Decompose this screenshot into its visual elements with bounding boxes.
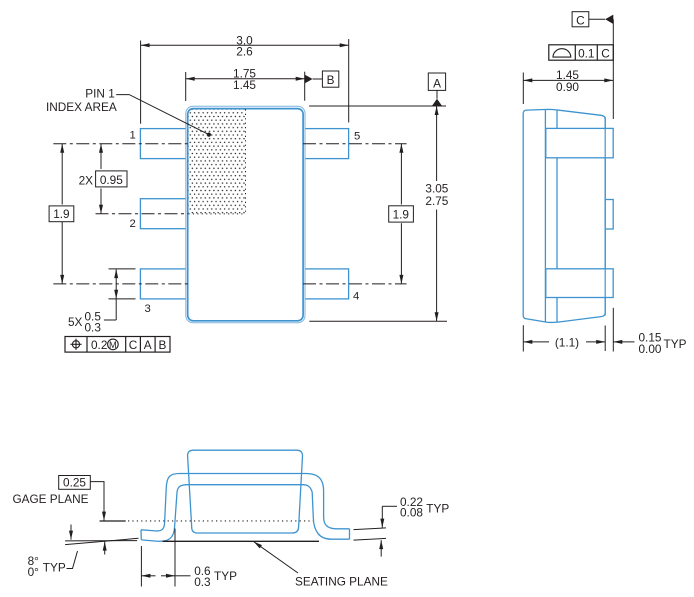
centerline pin row 1 right	[303, 143, 407, 145]
svg-text:0.3: 0.3	[85, 320, 102, 334]
svg-text:C: C	[601, 46, 610, 60]
pin 4 lead	[305, 269, 349, 299]
seating plane label	[254, 542, 389, 589]
svg-text:TYP: TYP	[426, 502, 449, 516]
svg-text:0.08: 0.08	[400, 506, 423, 520]
side bottom lead	[546, 269, 613, 298]
svg-text:2X: 2X	[79, 173, 94, 187]
datum A symbol	[428, 73, 445, 106]
centerline pin row 3 right	[303, 283, 407, 285]
svg-text:GAGE PLANE: GAGE PLANE	[12, 492, 88, 506]
svg-text:INDEX AREA: INDEX AREA	[46, 100, 117, 114]
body outline inner	[188, 109, 303, 321]
centerline pin row 1 left	[53, 143, 188, 145]
svg-text:4: 4	[353, 291, 359, 303]
datum B symbol	[305, 71, 339, 87]
svg-text:1: 1	[130, 129, 136, 141]
svg-text:0.00: 0.00	[639, 342, 662, 356]
svg-text:SEATING PLANE: SEATING PLANE	[295, 574, 388, 588]
svg-text:(1.1): (1.1)	[555, 335, 579, 349]
dimension 1.75/1.45	[186, 66, 305, 101]
svg-text:5: 5	[354, 130, 360, 142]
dimension 0.6/0.3	[141, 529, 237, 589]
pin 1 index area label	[46, 87, 211, 137]
svg-text:A: A	[144, 338, 152, 352]
dimension 2X 0.95	[79, 144, 127, 214]
lead lower surface path	[141, 485, 349, 542]
seating plane line	[163, 540, 320, 542]
svg-text:0.2: 0.2	[91, 338, 107, 352]
feature control frame position	[65, 337, 170, 353]
side middle lead tab	[605, 200, 613, 230]
svg-text:1.9: 1.9	[393, 207, 409, 221]
datum C symbol	[572, 12, 613, 119]
svg-text:A: A	[433, 76, 441, 90]
gage plane line	[100, 520, 126, 522]
pin 5 lead	[305, 129, 349, 159]
pin 1 index area stipple	[189, 109, 246, 213]
lead upper surface path	[141, 474, 350, 531]
dimension 3.05/2.75	[309, 106, 449, 321]
svg-text:2.6: 2.6	[236, 45, 253, 59]
svg-text:2.75: 2.75	[425, 194, 448, 208]
svg-text:2: 2	[130, 218, 136, 230]
svg-text:PIN 1: PIN 1	[85, 87, 115, 101]
svg-text:B: B	[158, 338, 166, 352]
centerline pin row 2	[96, 213, 189, 215]
pin 1 lead	[140, 129, 186, 159]
dimension (1.1)	[523, 325, 605, 351]
lead right tip edge	[349, 529, 351, 539]
side top lead	[546, 128, 613, 157]
angle 8/0 deg wedge	[28, 525, 139, 580]
dimension 1.45/0.90	[523, 68, 613, 104]
gage plane label	[12, 476, 104, 521]
svg-text:0.95: 0.95	[100, 173, 123, 187]
side body inner edge lines	[544, 110, 546, 323]
svg-text:0.90: 0.90	[556, 80, 579, 94]
side body outline	[523, 109, 605, 322]
centerline pin row 3 left	[53, 283, 188, 285]
svg-text:1.9: 1.9	[53, 207, 69, 221]
pin 2 lead	[140, 199, 186, 229]
dimension 5X 0.5/0.3	[68, 269, 136, 335]
svg-text:0.3: 0.3	[194, 575, 211, 589]
svg-text:3: 3	[145, 303, 151, 315]
svg-text:0.1: 0.1	[578, 46, 594, 60]
dimension 1.9 left	[49, 144, 74, 284]
dimension 0.22/0.08	[354, 495, 450, 557]
dimension 3.0/2.6	[141, 33, 349, 123]
dimension 1.9 right	[389, 144, 414, 284]
svg-text:TYP: TYP	[214, 569, 237, 583]
svg-text:1.45: 1.45	[233, 78, 256, 92]
svg-text:0.25: 0.25	[63, 476, 86, 490]
feature control frame profile	[549, 45, 614, 61]
svg-text:TYP: TYP	[664, 337, 687, 351]
svg-text:B: B	[327, 73, 335, 87]
svg-text:5X: 5X	[68, 315, 83, 329]
dimension 0.15/0.00	[613, 308, 686, 356]
profile body outline	[188, 450, 303, 533]
svg-text:C: C	[576, 13, 585, 27]
svg-text:TYP: TYP	[43, 561, 66, 575]
body outline outer	[186, 106, 305, 322]
pin 3 lead	[140, 269, 186, 299]
svg-text:0°: 0°	[28, 565, 40, 579]
svg-text:M: M	[109, 340, 117, 350]
side body right edge over leads	[604, 117, 606, 316]
svg-text:C: C	[129, 338, 138, 352]
lead left tip edge	[140, 530, 142, 540]
